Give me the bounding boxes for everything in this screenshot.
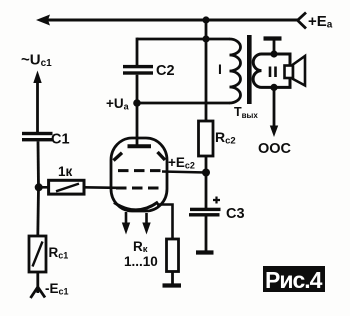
transformer core	[247, 35, 252, 104]
wire horizontal y=39 C2 to primary top	[137, 38, 230, 41]
svg-text:C1: C1	[51, 132, 70, 148]
input signal arrow up	[33, 71, 41, 84]
filament lead right with arrow	[145, 213, 148, 224]
speaker body with secondary winding II	[253, 54, 290, 87]
wire +Ec2 node down to C3	[205, 173, 208, 209]
svg-text:1к: 1к	[58, 164, 73, 179]
terminal -Ec1 chevron	[31, 287, 46, 298]
capacitor C3	[190, 208, 221, 211]
label II secondary bars	[269, 67, 272, 78]
resistor Rc2	[199, 121, 214, 156]
wire Rk to ground	[171, 272, 174, 286]
capacitor C1	[22, 132, 53, 135]
tube screen grid g2 dashed	[118, 169, 162, 172]
wire anode lead	[136, 103, 139, 146]
wire Rc1 to -Ec1 terminal	[36, 272, 39, 288]
node +Ua junction	[133, 99, 141, 107]
wire cathode to Rk	[157, 205, 173, 240]
resistor Rc1 diagonal	[33, 242, 43, 267]
node speaker top junction	[270, 50, 277, 57]
tube control grid g1 dashed	[116, 187, 161, 190]
ground bar below Rk	[163, 283, 182, 287]
ground bar below C3	[196, 250, 214, 254]
wire top +Ea rail	[44, 19, 299, 22]
wire anode node to primary bottom y=103	[137, 102, 230, 105]
wire node down to Rc1	[36, 187, 40, 236]
node speaker bottom junction	[270, 84, 277, 91]
node +Ec2 junction	[202, 169, 210, 177]
transformer primary winding I	[230, 39, 241, 103]
wire screen grid to +Ec2 node	[162, 172, 206, 173]
capacitor C3 polarity plus	[213, 197, 220, 204]
wire feedback OOC with arrow	[273, 87, 276, 127]
node junction on rail at x=206	[202, 16, 209, 23]
ground bar above speaker	[264, 36, 282, 40]
wire node to 1k	[39, 186, 49, 189]
resistor Rk	[167, 239, 179, 272]
tube envelope U1	[111, 138, 167, 211]
tube filament cathode arc	[114, 202, 158, 210]
tube anode side wing right	[158, 152, 166, 160]
wire +Ea rail down to Rc2	[205, 39, 208, 122]
wire C2 upper lead	[136, 38, 139, 66]
node junction at C2/primary tee	[202, 35, 209, 42]
figure label Ris.4	[263, 266, 325, 292]
wire Rc2 to +Ec2 node	[205, 156, 208, 173]
svg-text:ООС: ООС	[258, 141, 292, 157]
resistor Rc1	[29, 236, 46, 272]
node grid junction	[35, 183, 43, 191]
svg-text:I: I	[218, 61, 222, 77]
arrowhead left on +Ea rail	[36, 15, 50, 26]
svg-text:1...10: 1...10	[124, 254, 158, 269]
wire from rail down to C2/primary tee	[205, 20, 208, 39]
svg-text:Рис.4: Рис.4	[265, 267, 323, 293]
tube anode bar	[128, 144, 152, 148]
capacitor C2	[123, 65, 153, 68]
wire C2 lower lead to +Ua node	[136, 75, 139, 103]
svg-text:C2: C2	[156, 63, 175, 79]
svg-text:C3: C3	[226, 206, 245, 222]
filament lead left with arrow	[125, 212, 128, 224]
speaker voice-coil square	[285, 66, 294, 79]
resistor 1k	[49, 180, 84, 194]
wire speaker top to ground bar	[273, 40, 276, 55]
terminal +Ea chevron	[298, 13, 307, 29]
wire C1 to grid node	[37, 141, 40, 188]
resistor 1k wiper diagonal	[56, 184, 79, 192]
wire grid1 lead to 1k	[84, 186, 116, 189]
tube anode side wing left	[114, 153, 123, 161]
wire C3 to ground	[205, 217, 208, 253]
speaker cone	[293, 56, 305, 86]
